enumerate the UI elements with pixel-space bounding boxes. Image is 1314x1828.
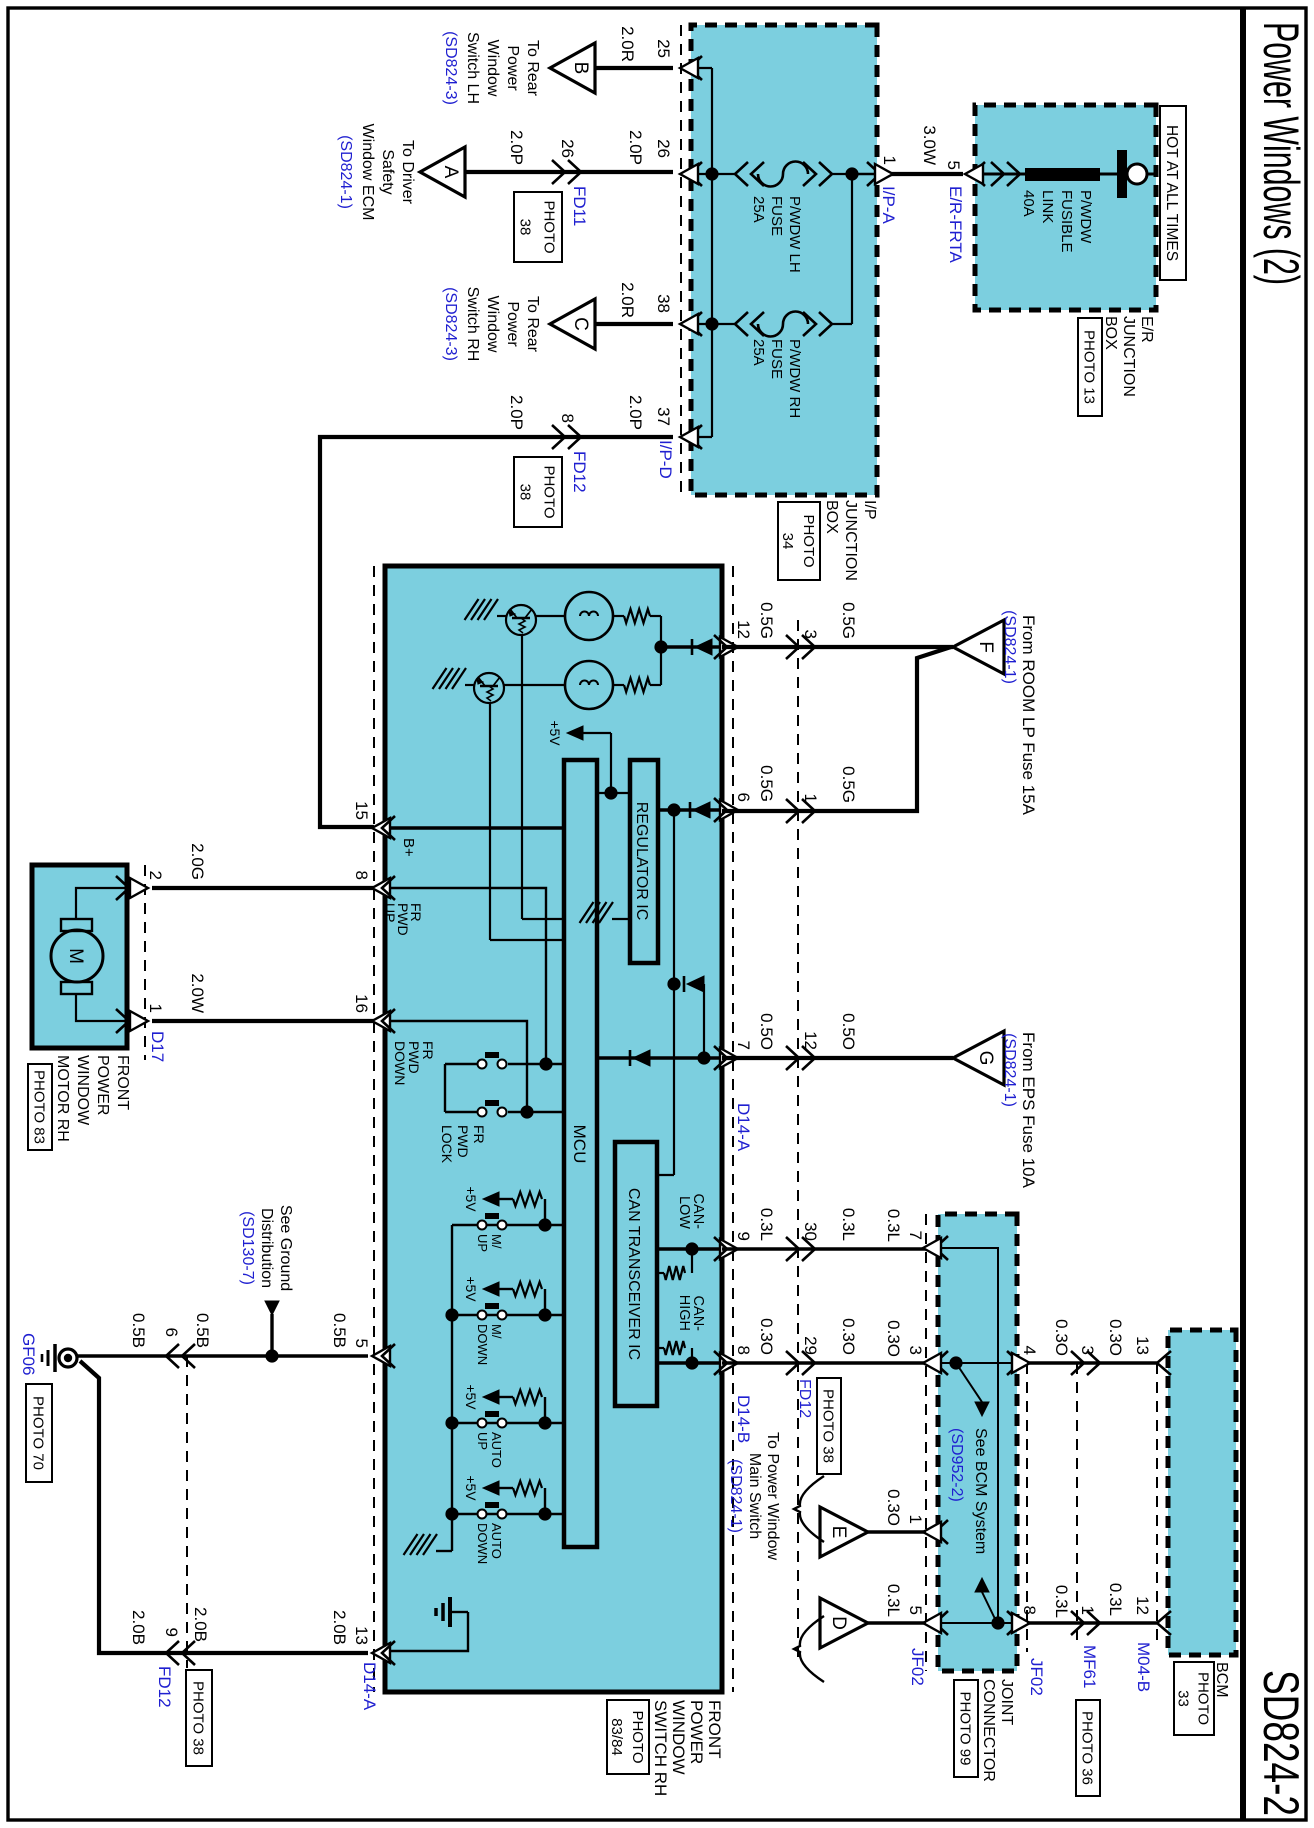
svg-text:5: 5 [906, 1606, 925, 1615]
svg-text:(SD824-1): (SD824-1) [727, 1459, 744, 1533]
svg-text:(SD824-1): (SD824-1) [1001, 610, 1018, 684]
svg-text:A: A [440, 166, 461, 179]
svg-text:(SD824-1): (SD824-1) [1001, 1033, 1018, 1107]
svg-text:D: D [828, 1616, 849, 1630]
svg-text:FD12: FD12 [155, 1666, 174, 1708]
svg-text:UP: UP [382, 903, 398, 922]
svg-text:2.0B: 2.0B [330, 1610, 349, 1645]
svg-text:PHOTO 38: PHOTO 38 [190, 1681, 207, 1755]
svg-text:2.0R: 2.0R [618, 26, 637, 62]
svg-text:POWER: POWER [687, 1700, 706, 1764]
svg-text:SWITCH RH: SWITCH RH [651, 1700, 670, 1796]
svg-text:5: 5 [352, 1339, 371, 1348]
svg-text:(SD824-3): (SD824-3) [442, 31, 459, 105]
svg-text:Window: Window [484, 296, 501, 353]
svg-text:See Ground: See Ground [277, 1205, 294, 1291]
svg-text:Switch RH: Switch RH [464, 287, 481, 362]
svg-text:38: 38 [517, 219, 534, 236]
svg-text:12: 12 [1133, 1596, 1152, 1615]
svg-text:M: M [65, 948, 86, 964]
svg-text:P/WDW RH: P/WDW RH [786, 339, 803, 418]
svg-text:8: 8 [558, 414, 577, 423]
svg-text:To Driver: To Driver [399, 140, 416, 205]
svg-text:HOT AT ALL TIMES: HOT AT ALL TIMES [1163, 125, 1180, 261]
svg-text:PHOTO 70: PHOTO 70 [30, 1396, 47, 1470]
svg-text:2.0G: 2.0G [188, 843, 207, 880]
svg-text:+5V: +5V [463, 1276, 479, 1302]
svg-text:PHOTO: PHOTO [629, 1710, 646, 1763]
svg-text:P/WDW: P/WDW [1077, 190, 1094, 244]
svg-text:34: 34 [779, 533, 796, 550]
svg-text:0.3O: 0.3O [757, 1318, 776, 1355]
svg-text:2.0B: 2.0B [191, 1607, 210, 1642]
svg-text:25A: 25A [750, 196, 767, 223]
svg-text:MF61: MF61 [1080, 1645, 1099, 1688]
svg-text:Power: Power [504, 301, 521, 347]
svg-text:MCU: MCU [570, 1125, 589, 1164]
svg-text:+5V: +5V [463, 1186, 479, 1212]
svg-text:To Rear: To Rear [524, 40, 541, 97]
svg-text:M04-B: M04-B [1134, 1642, 1153, 1692]
svg-text:C: C [570, 317, 591, 331]
svg-text:2.0R: 2.0R [618, 282, 637, 318]
svg-text:DOWN: DOWN [475, 1523, 490, 1564]
svg-text:0.5G: 0.5G [839, 602, 858, 639]
svg-text:12: 12 [734, 620, 753, 639]
svg-text:Switch LH: Switch LH [464, 32, 481, 104]
svg-text:0.3O: 0.3O [884, 1489, 903, 1526]
svg-text:FD12: FD12 [796, 1379, 813, 1418]
svg-text:0.5G: 0.5G [839, 766, 858, 803]
svg-text:1: 1 [880, 156, 899, 165]
svg-text:LOCK: LOCK [439, 1125, 455, 1164]
svg-text:E/R-FRTA: E/R-FRTA [946, 186, 965, 263]
svg-text:7: 7 [734, 1041, 753, 1050]
svg-text:D14-A: D14-A [734, 1103, 753, 1152]
svg-text:PWD: PWD [455, 1125, 471, 1158]
svg-text:+5V: +5V [463, 1384, 479, 1410]
svg-text:2.0P: 2.0P [507, 130, 526, 165]
svg-text:40A: 40A [1020, 190, 1037, 217]
svg-text:I/P-A: I/P-A [879, 186, 898, 224]
svg-text:DOWN: DOWN [392, 1041, 408, 1085]
svg-text:38: 38 [517, 484, 534, 501]
svg-text:To Rear: To Rear [524, 296, 541, 353]
svg-text:3.0W: 3.0W [920, 125, 939, 165]
svg-text:0.3L: 0.3L [884, 1584, 903, 1617]
svg-text:13: 13 [1133, 1336, 1152, 1355]
svg-text:D14-A: D14-A [360, 1662, 379, 1711]
svg-text:PHOTO 13: PHOTO 13 [1081, 330, 1098, 404]
svg-text:1: 1 [801, 794, 820, 803]
svg-text:GF06: GF06 [19, 1333, 38, 1376]
svg-text:From EPS Fuse 10A: From EPS Fuse 10A [1019, 1032, 1038, 1189]
svg-text:25A: 25A [750, 339, 767, 366]
svg-text:+5V: +5V [463, 1475, 479, 1501]
svg-text:0.3L: 0.3L [884, 1209, 903, 1242]
svg-text:FR: FR [471, 1125, 487, 1144]
svg-text:1: 1 [906, 1515, 925, 1524]
svg-text:Distribution: Distribution [258, 1208, 275, 1288]
svg-text:AUTO: AUTO [489, 1523, 504, 1559]
svg-text:2.0P: 2.0P [507, 395, 526, 430]
svg-text:4: 4 [1020, 1346, 1039, 1355]
svg-text:FUSE: FUSE [768, 339, 785, 379]
svg-text:I/P-D: I/P-D [656, 440, 675, 479]
svg-text:MOTOR RH: MOTOR RH [54, 1055, 71, 1142]
svg-text:HIGH: HIGH [676, 1295, 692, 1331]
svg-text:0.5O: 0.5O [839, 1013, 858, 1050]
svg-text:12: 12 [801, 1031, 820, 1050]
svg-text:UP: UP [475, 1234, 490, 1252]
svg-text:83/84: 83/84 [608, 1718, 625, 1756]
svg-text:JF02: JF02 [908, 1648, 927, 1686]
svg-text:PHOTO 99: PHOTO 99 [957, 1692, 974, 1766]
svg-text:JUNCTION: JUNCTION [1120, 316, 1137, 397]
svg-text:JUNCTION: JUNCTION [842, 500, 859, 581]
svg-text:37: 37 [654, 407, 673, 426]
svg-text:8: 8 [734, 1346, 753, 1355]
svg-text:0.3L: 0.3L [1106, 1583, 1125, 1616]
svg-text:M/: M/ [489, 1234, 504, 1249]
svg-text:FD11: FD11 [570, 186, 589, 226]
svg-text:6: 6 [162, 1328, 181, 1337]
svg-text:FRONT: FRONT [705, 1700, 724, 1759]
svg-text:JF02: JF02 [1027, 1658, 1046, 1696]
svg-text:REGULATOR IC: REGULATOR IC [633, 802, 650, 921]
svg-text:Main Switch: Main Switch [746, 1453, 763, 1539]
svg-text:B: B [570, 62, 591, 75]
svg-text:16: 16 [352, 994, 371, 1013]
svg-text:F: F [975, 641, 996, 653]
svg-text:PHOTO: PHOTO [800, 514, 817, 567]
svg-text:BOX: BOX [1102, 316, 1119, 350]
svg-text:2.0P: 2.0P [626, 130, 645, 165]
svg-text:See BCM System: See BCM System [972, 1428, 989, 1554]
svg-text:BCM: BCM [1213, 1662, 1230, 1698]
svg-text:B+: B+ [400, 838, 417, 857]
svg-text:0.5B: 0.5B [129, 1313, 148, 1348]
svg-text:WINDOW: WINDOW [669, 1700, 688, 1775]
svg-text:UP: UP [475, 1432, 490, 1450]
svg-text:WINDOW: WINDOW [74, 1055, 91, 1126]
svg-text:PHOTO 38: PHOTO 38 [820, 1389, 837, 1463]
svg-text:FUSE: FUSE [768, 196, 785, 236]
svg-text:29: 29 [801, 1336, 820, 1355]
svg-text:2.0P: 2.0P [626, 395, 645, 430]
svg-text:0.5B: 0.5B [330, 1313, 349, 1348]
svg-text:Window: Window [484, 40, 501, 97]
svg-text:BOX: BOX [823, 500, 840, 534]
svg-text:33: 33 [1175, 1690, 1192, 1707]
svg-text:6: 6 [734, 793, 753, 802]
svg-text:E: E [828, 1526, 849, 1539]
svg-text:0.5O: 0.5O [757, 1013, 776, 1050]
svg-text:1: 1 [146, 1004, 165, 1013]
svg-text:+5V: +5V [547, 720, 563, 746]
svg-text:FUSIBLE: FUSIBLE [1058, 190, 1075, 253]
svg-text:PHOTO 83: PHOTO 83 [31, 1070, 48, 1144]
svg-text:CONNECTOR: CONNECTOR [980, 1679, 997, 1782]
svg-text:JOINT: JOINT [998, 1679, 1015, 1725]
svg-text:POWER: POWER [94, 1055, 111, 1115]
svg-text:LOW: LOW [676, 1196, 692, 1229]
svg-text:M/: M/ [489, 1324, 504, 1339]
svg-text:P/WDW LH: P/WDW LH [786, 196, 803, 273]
svg-text:25: 25 [654, 39, 673, 58]
svg-text:FD12: FD12 [570, 451, 589, 493]
svg-text:Power: Power [504, 45, 521, 91]
svg-text:LINK: LINK [1039, 190, 1056, 223]
svg-text:PHOTO: PHOTO [1195, 1672, 1212, 1725]
svg-text:CAN TRANSCEIVER IC: CAN TRANSCEIVER IC [625, 1188, 642, 1360]
svg-text:2: 2 [146, 871, 165, 880]
svg-text:0.3O: 0.3O [884, 1320, 903, 1357]
svg-text:26: 26 [654, 139, 673, 158]
svg-text:I/P: I/P [861, 500, 878, 520]
svg-text:13: 13 [352, 1626, 371, 1645]
svg-text:FRONT: FRONT [114, 1055, 131, 1110]
svg-text:From ROOM LP Fuse 15A: From ROOM LP Fuse 15A [1019, 615, 1038, 816]
svg-text:0.3L: 0.3L [1052, 1585, 1071, 1618]
svg-text:Safety: Safety [379, 149, 396, 194]
svg-text:DOWN: DOWN [475, 1324, 490, 1365]
svg-text:G: G [975, 1051, 996, 1066]
svg-text:PHOTO 36: PHOTO 36 [1079, 1711, 1096, 1785]
svg-text:7: 7 [906, 1231, 925, 1240]
svg-text:3: 3 [906, 1346, 925, 1355]
svg-text:0.5G: 0.5G [757, 602, 776, 639]
svg-text:PHOTO: PHOTO [541, 200, 558, 253]
svg-text:2.0W: 2.0W [188, 973, 207, 1013]
svg-text:9: 9 [162, 1628, 181, 1637]
svg-text:38: 38 [654, 294, 673, 313]
svg-text:To Power Window: To Power Window [764, 1432, 781, 1560]
svg-text:26: 26 [558, 139, 577, 158]
svg-text:0.5G: 0.5G [757, 765, 776, 802]
svg-text:E/R: E/R [1138, 316, 1155, 343]
svg-text:(SD824-1): (SD824-1) [337, 135, 354, 209]
svg-text:0.3O: 0.3O [1106, 1319, 1125, 1356]
svg-text:5: 5 [944, 161, 963, 170]
svg-text:3: 3 [1078, 1346, 1097, 1355]
svg-text:2.0B: 2.0B [129, 1610, 148, 1645]
svg-text:0.3L: 0.3L [757, 1208, 776, 1241]
svg-text:SD824-2: SD824-2 [1253, 1670, 1309, 1816]
svg-text:AUTO: AUTO [489, 1432, 504, 1468]
svg-text:D17: D17 [148, 1031, 167, 1062]
svg-text:9: 9 [734, 1232, 753, 1241]
svg-text:1: 1 [1078, 1606, 1097, 1615]
svg-text:8: 8 [1020, 1606, 1039, 1615]
svg-text:(SD824-3): (SD824-3) [442, 287, 459, 361]
svg-text:(SD130-7): (SD130-7) [239, 1211, 256, 1285]
svg-text:Window ECM: Window ECM [359, 124, 376, 221]
svg-text:Power Windows (2): Power Windows (2) [1253, 22, 1309, 285]
svg-text:0.3O: 0.3O [1052, 1319, 1071, 1356]
svg-text:D14-B: D14-B [734, 1395, 753, 1443]
svg-text:8: 8 [352, 871, 371, 880]
svg-text:(SD952-2): (SD952-2) [948, 1428, 965, 1502]
svg-text:0.3L: 0.3L [839, 1208, 858, 1241]
svg-text:0.3O: 0.3O [839, 1318, 858, 1355]
svg-text:15: 15 [352, 801, 371, 820]
svg-text:PHOTO: PHOTO [541, 465, 558, 518]
svg-text:3: 3 [801, 630, 820, 639]
svg-text:0.5B: 0.5B [193, 1313, 212, 1348]
svg-text:30: 30 [801, 1222, 820, 1241]
